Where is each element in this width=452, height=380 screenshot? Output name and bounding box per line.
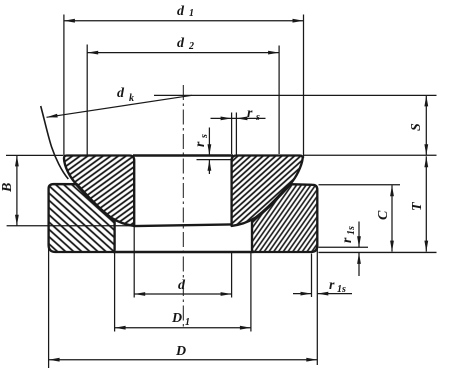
r1s horizontal dimension arrows	[293, 293, 312, 295]
svg-text:1: 1	[189, 8, 194, 19]
svg-text:r: r	[247, 106, 253, 121]
svg-text:1: 1	[185, 317, 190, 328]
B bottom extension line	[7, 225, 134, 227]
T dimension line	[425, 156, 427, 251]
label B	[0, 183, 15, 193]
rs vertical dimension arrows	[208, 128, 210, 156]
label rs vertical	[193, 134, 210, 147]
d2 extension line left	[86, 45, 88, 156]
D1 dimension line	[115, 327, 251, 329]
C dimension line	[391, 185, 393, 251]
r1s corner extension line	[319, 246, 369, 248]
housing washer left section	[49, 184, 115, 252]
r1s vertical dimension arrows	[358, 222, 360, 248]
rs extension verticals at bore corner	[231, 113, 233, 155]
extended sphere arc (dk)	[41, 106, 69, 179]
dk leader line	[47, 95, 193, 117]
svg-text:C: C	[376, 210, 391, 220]
svg-text:B: B	[0, 183, 15, 193]
housing washer right section	[252, 184, 317, 252]
svg-text:r: r	[340, 237, 355, 243]
svg-text:r: r	[329, 278, 335, 293]
housing washer top extension	[319, 184, 401, 186]
shaft washer left section	[64, 156, 134, 226]
svg-text:d: d	[178, 278, 186, 293]
svg-text:d: d	[177, 36, 185, 51]
svg-text:2: 2	[188, 41, 194, 52]
bottom face extension to the right	[319, 251, 437, 253]
d extension line left	[133, 227, 135, 298]
svg-text:k: k	[129, 93, 134, 104]
d dimension line	[134, 293, 231, 295]
S dimension line	[425, 95, 427, 155]
contact curve emphasis right	[252, 184, 290, 222]
vertical centerline (axis)	[182, 85, 184, 330]
contact curve emphasis left	[76, 184, 114, 222]
svg-text:s: s	[255, 112, 260, 123]
D1 extension line left	[114, 253, 116, 332]
d1 extension line right	[303, 15, 305, 159]
label r1s vertical	[340, 226, 357, 243]
svg-text:r: r	[193, 141, 208, 147]
svg-text:D: D	[175, 344, 186, 359]
r1s extension verticals below corner	[311, 254, 313, 298]
D1 extension line right	[250, 253, 252, 332]
B top extension line	[6, 154, 63, 156]
svg-text:1s: 1s	[337, 284, 346, 295]
label T	[410, 201, 425, 211]
sphere centre horizontal line	[154, 94, 437, 96]
B dimension line	[16, 155, 18, 225]
label S	[409, 123, 424, 131]
d extension line right	[231, 253, 233, 298]
d2 extension line right	[278, 46, 280, 155]
svg-text:D: D	[171, 311, 182, 326]
D extension line left	[48, 248, 50, 368]
svg-text:s: s	[199, 134, 210, 139]
top face line across bore	[133, 154, 233, 156]
svg-text:d: d	[177, 4, 185, 19]
d1 dimension line	[64, 20, 304, 22]
housing washer bottom edge across bore	[113, 251, 254, 253]
svg-text:1s: 1s	[346, 226, 357, 235]
D dimension line	[49, 359, 318, 361]
label C	[376, 210, 391, 220]
d2 dimension line	[87, 52, 279, 54]
rs horizontal dimension line	[211, 117, 266, 119]
d1 extension line left	[63, 15, 65, 157]
rs extension line (fillet bottom, left of bore)	[197, 159, 232, 161]
svg-text:T: T	[410, 201, 425, 211]
svg-text:d: d	[117, 86, 125, 101]
svg-text:S: S	[409, 123, 424, 131]
bore bottom silhouette	[134, 224, 231, 226]
top face extension to the right	[304, 154, 437, 156]
shaft washer right section	[232, 156, 303, 226]
